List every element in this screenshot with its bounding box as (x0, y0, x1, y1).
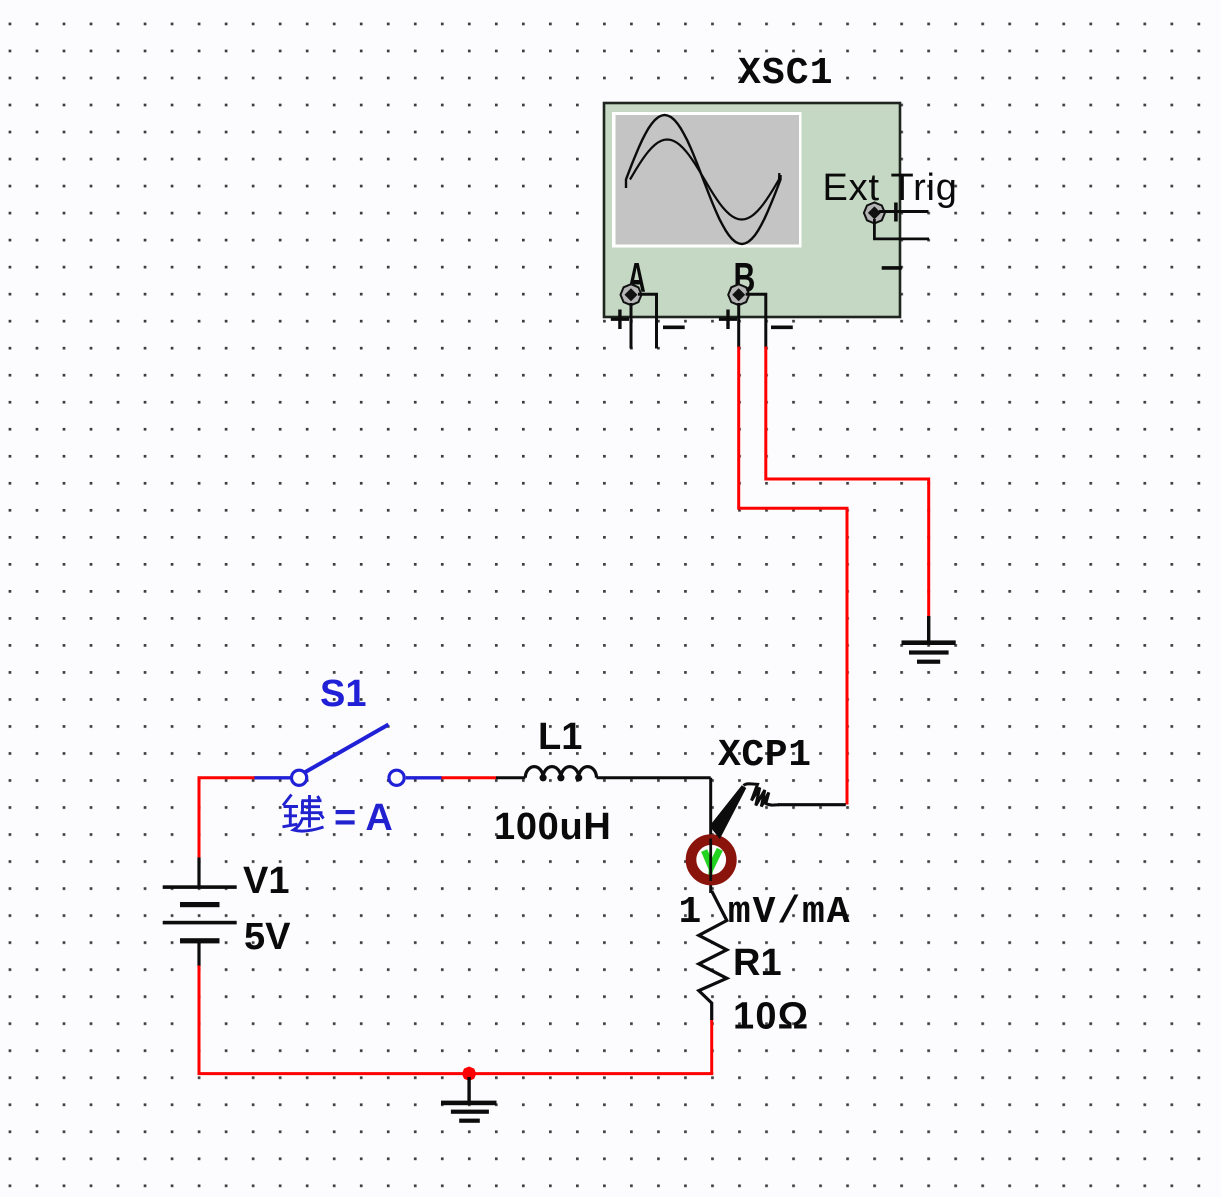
svg-text:V1: V1 (243, 860, 289, 902)
svg-text:S1: S1 (320, 673, 366, 715)
channel B terminal pin (728, 284, 749, 305)
wire switch to inductor (red) (442, 776, 497, 779)
resistor R1 (699, 891, 727, 1020)
wire channel A minus pin stub (638, 294, 657, 348)
wire channel A plus pin stub (630, 303, 633, 349)
wire Ext Trig plus stub (879, 203, 929, 222)
channel B plus sign (719, 310, 737, 330)
svg-text:1 mV/mA: 1 mV/mA (679, 891, 852, 934)
switch S1 (254, 725, 442, 786)
channel A plus sign (611, 310, 629, 330)
svg-text:R1: R1 (733, 942, 782, 984)
Ext Trig terminal pin (864, 202, 885, 223)
wire B plus to probe output (red) (739, 347, 847, 805)
oscilloscope XSC1 (604, 103, 900, 317)
wire battery to bottom rail (red) (199, 966, 713, 1074)
wire channel B plus pin stub (737, 303, 740, 348)
ground (scope B minus) (902, 616, 956, 664)
svg-text:XCP1: XCP1 (718, 734, 812, 777)
battery V1 (163, 858, 237, 968)
wire channel B minus pin stub (746, 294, 766, 348)
wire bottom rail to resistor (red) (710, 1019, 713, 1075)
channel A terminal pin (621, 284, 642, 305)
wire Ext Trig minus stub (874, 219, 929, 239)
svg-text:5V: 5V (244, 916, 291, 958)
svg-text:10Ω: 10Ω (733, 996, 809, 1038)
Ext Trig minus sign (882, 266, 902, 270)
wire switch to battery (red) (199, 778, 255, 859)
inductor L1 (496, 767, 711, 782)
channel A minus sign (663, 325, 685, 329)
svg-text:100uH: 100uH (494, 806, 612, 848)
wire inductor to resistor (through probe) (709, 778, 712, 893)
junction (bottom rail) (462, 1067, 476, 1081)
wire B minus to ground (red) (766, 347, 929, 619)
current probe XCP1 (691, 784, 846, 881)
svg-text:Ext Trig: Ext Trig (823, 167, 958, 209)
svg-text:L1: L1 (538, 716, 582, 758)
svg-text:XSC1: XSC1 (738, 52, 834, 95)
ground (bottom rail) (441, 1077, 497, 1123)
label 键 = A (switch key) (283, 795, 324, 832)
svg-text:= A: = A (334, 797, 393, 839)
channel B minus sign (771, 325, 793, 329)
